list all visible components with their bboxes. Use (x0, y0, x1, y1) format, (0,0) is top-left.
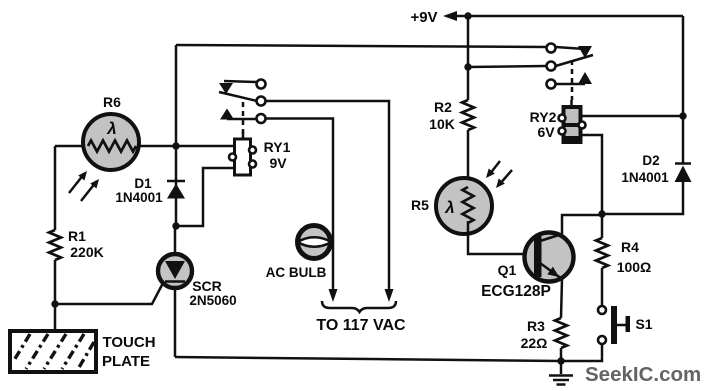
relay RY2 contacts (547, 44, 594, 101)
svg-text:10K: 10K (429, 116, 455, 132)
svg-text:2N5060: 2N5060 (189, 293, 236, 308)
wire +9V feed down through R2 (467, 16, 470, 186)
node junction right rail / RY2 (679, 112, 686, 119)
node junction gate / R1 / touch plate (51, 300, 58, 307)
resistor R1 (49, 228, 104, 260)
resistor R4 (596, 238, 651, 275)
svg-text:Q1: Q1 (498, 262, 517, 278)
wire RY1 bottom contact through AC bulb down (266, 119, 334, 293)
AC BULB lamp (266, 226, 332, 281)
svg-text:22Ω: 22Ω (521, 335, 548, 351)
svg-text:6V: 6V (537, 124, 555, 140)
wire SCR gate (55, 283, 163, 304)
svg-text:R2: R2 (434, 99, 452, 115)
wire bend from D1 node to RY1 coil lower terminal (176, 168, 235, 226)
svg-text:ECG128P: ECG128P (481, 283, 551, 300)
wire left vertical through R1 to touch plate (54, 146, 57, 331)
transistor Q1 ECG128P (481, 233, 573, 301)
svg-text:R3: R3 (527, 318, 545, 334)
svg-text:AC BULB: AC BULB (266, 265, 327, 280)
svg-text:RY2: RY2 (530, 109, 557, 125)
light arrows into R6 (69, 168, 102, 201)
wire Q1 emitter down to R3 (561, 279, 562, 361)
wire to RY2 middle contact (468, 66, 547, 67)
SCR 2N5060 (158, 254, 237, 308)
wire R6 horizontal line (55, 145, 235, 148)
svg-text:PLATE: PLATE (102, 353, 150, 370)
relay RY2 coil 6V (530, 100, 586, 142)
wire R5 bottom to Q1 base (468, 221, 536, 254)
resistor R2 (429, 99, 474, 132)
node junction emitter/ground on bottom rail (557, 357, 564, 364)
wire right rail vertical (602, 16, 683, 214)
svg-text:SeekIC.com: SeekIC.com (585, 363, 701, 386)
node junction D1 top (172, 142, 179, 149)
relay RY1 contacts (219, 80, 266, 140)
node +9V junction (464, 12, 471, 19)
pushbutton S1 (598, 306, 653, 344)
light arrows into R5 (483, 161, 512, 191)
wire Q1 collector up to node (562, 215, 602, 234)
svg-text:λ: λ (106, 119, 116, 138)
svg-text:1N4001: 1N4001 (115, 190, 163, 205)
+9V supply arrow (410, 9, 683, 26)
svg-text:R5: R5 (411, 197, 429, 213)
brace TO 117 VAC (316, 301, 406, 334)
svg-text:λ: λ (444, 198, 454, 217)
photoresistor R5 (411, 178, 492, 234)
svg-text:1N4001: 1N4001 (621, 170, 669, 185)
wire RY2 coil bottom terminal down to collector node (581, 135, 602, 214)
svg-text:RY1: RY1 (264, 139, 291, 155)
svg-text:R1: R1 (68, 228, 86, 244)
diode D1 1N4001 (115, 176, 185, 205)
relay RY1 coil 9V (229, 131, 291, 175)
watermark SeekIC.com (585, 363, 701, 386)
node junction D1 bottom / SCR anode (172, 222, 179, 229)
wire RY1 middle contact to right VAC arrow (266, 101, 390, 292)
resistor R3 (521, 318, 567, 351)
node junction R2 top branch (464, 63, 471, 70)
wire bottom rail (175, 344, 602, 361)
touch plate (10, 331, 156, 372)
arrow to 117 VAC left (329, 289, 338, 302)
photoresistor R6 (83, 94, 139, 170)
node junction collector/R4/RY2/D2 (598, 210, 605, 217)
svg-text:S1: S1 (635, 316, 652, 332)
svg-text:9V: 9V (269, 155, 287, 171)
svg-text:D2: D2 (642, 153, 659, 168)
wire top-left vertical from top rail down to D1 node (175, 45, 178, 226)
svg-text:R6: R6 (103, 94, 121, 110)
svg-text:D1: D1 (134, 176, 152, 191)
wire top horizontal to RY2 top contact (176, 45, 547, 47)
ground (549, 361, 573, 385)
svg-text:TO 117 VAC: TO 117 VAC (316, 317, 406, 334)
svg-text:SCR: SCR (192, 278, 222, 294)
wire node down through R4 to S1 (601, 214, 604, 306)
wire RY2 coil top terminal to right rail (581, 115, 683, 118)
svg-text:R4: R4 (621, 239, 639, 255)
svg-text:+9V: +9V (410, 9, 437, 26)
svg-text:TOUCH: TOUCH (102, 334, 155, 351)
svg-text:100Ω: 100Ω (617, 259, 652, 275)
diode D2 1N4001 (621, 153, 691, 185)
arrow to 117 VAC right (385, 289, 394, 302)
svg-text:220K: 220K (70, 244, 103, 260)
wire SCR vertical anode-cathode down to bottom rail (174, 226, 177, 357)
